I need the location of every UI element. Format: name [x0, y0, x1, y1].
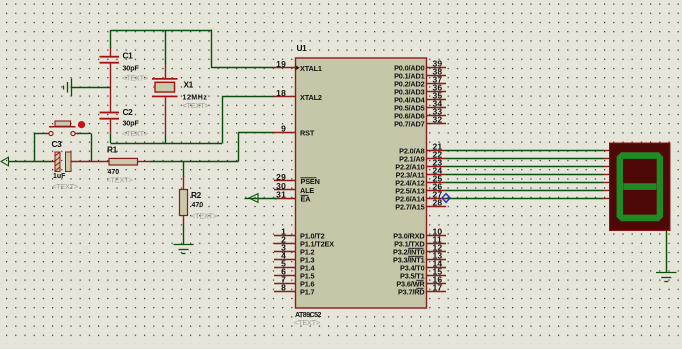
svg-text:32: 32 — [433, 115, 443, 125]
svg-text:P2.7/A15: P2.7/A15 — [395, 202, 424, 211]
U1 pin 1 P1.0/T2 stub — [274, 235, 296, 237]
wire XTAL1 net top — [111, 30, 275, 68]
U1 pin 11 P3.1/TXD stub — [426, 243, 446, 245]
wire P2.1/A9 to display — [446, 158, 610, 160]
wire P2.4/A12 to display — [446, 182, 610, 184]
svg-text:19: 19 — [276, 59, 286, 69]
svg-text:1uF: 1uF — [53, 173, 66, 180]
capacitor C3 (electrolytic) — [55, 152, 109, 172]
capacitor C2 — [100, 112, 120, 143]
U1 pin 2 P1.1/T2EX stub — [274, 243, 296, 245]
svg-text:C2: C2 — [123, 107, 134, 117]
wire input to C3 — [9, 161, 56, 163]
U1 pin 8 P1.7 stub — [274, 291, 296, 293]
svg-text:P0.7/AD7: P0.7/AD7 — [394, 119, 425, 128]
U1 pin label P3.6/WR — [396, 279, 425, 288]
resistor R2 — [180, 162, 188, 245]
svg-text:R1: R1 — [107, 144, 118, 154]
wire P2.5/A13 to display — [446, 190, 610, 192]
svg-text:470: 470 — [192, 202, 204, 209]
U1 pin 35 P0.4/AD4 stub — [426, 99, 446, 101]
U1 pin 39 P0.0/AD0 stub — [426, 67, 446, 69]
U1 pin 23 P2.2/A10 stub — [426, 166, 446, 168]
U1 pin 18 XTAL2 stub — [274, 96, 296, 98]
svg-text:8: 8 — [281, 283, 286, 293]
U1 pin 36 P0.3/AD3 stub — [426, 91, 446, 93]
U1 pin 27 P2.6/A14 stub — [426, 198, 446, 200]
wire display to ground — [666, 231, 668, 273]
U1 pin 24 P2.3/A11 stub — [426, 174, 446, 176]
U1 pin 30 ALE stub — [274, 189, 296, 191]
U1 pin 19 XTAL1 stub — [274, 67, 296, 69]
wire P2.6/A14 to display — [446, 198, 610, 200]
U1 pin 14 P3.4/T0 stub — [426, 267, 446, 269]
capacitor C1 labels — [122, 51, 148, 83]
U1 pin label P3.7/RD — [398, 287, 425, 296]
resistor R2 labels — [191, 190, 217, 221]
U1 pin 32 P0.7/AD7 stub — [426, 123, 446, 125]
U1 XTAL1 pin entry arrow — [296, 65, 300, 70]
wire R1 to RST — [149, 132, 274, 162]
EA terminal arrow — [245, 194, 278, 203]
svg-text:R2: R2 — [191, 190, 202, 200]
U1 pin 6 P1.5 stub — [274, 275, 296, 277]
resistor R1 — [109, 158, 149, 165]
U1 pin 29 PSEN stub — [274, 180, 296, 182]
svg-text:<TEXT>: <TEXT> — [107, 175, 133, 184]
U1 pin 12 P3.2/INT0 stub — [426, 251, 446, 253]
ground (below R2) — [174, 245, 194, 254]
resistor R1 labels — [107, 144, 133, 184]
U1 pin label EA — [301, 194, 312, 203]
U1 pin 17 P3.7/RD stub — [426, 291, 446, 293]
svg-text:9: 9 — [281, 124, 286, 134]
svg-text:<TEXT>: <TEXT> — [294, 318, 320, 327]
node: blue probe marker on P2.6 wire — [442, 194, 450, 203]
U1 pin label P3.2/INT0 — [393, 247, 425, 256]
U1 pin 22 P2.1/A9 stub — [426, 158, 446, 160]
U1 pin 15 P3.5/T1 stub — [426, 275, 446, 277]
svg-text:30pF: 30pF — [123, 65, 140, 72]
U1 part label AT89C52 — [294, 312, 322, 327]
U1 pin 28 P2.7/A15 stub — [426, 206, 446, 208]
ground (below display) — [656, 273, 677, 282]
U1 pin 10 P3.0/RXD stub — [426, 235, 446, 237]
U1 pin 13 P3.3/INT1 stub — [426, 259, 446, 261]
U1 pin 21 P2.0/A8 stub — [426, 150, 446, 152]
U1 pin 3 P1.2 stub — [274, 251, 296, 253]
svg-text:31: 31 — [276, 190, 286, 200]
svg-text:<TEXT>: <TEXT> — [122, 74, 148, 83]
svg-text:17: 17 — [433, 283, 443, 293]
svg-text:28: 28 — [433, 198, 443, 208]
U1 pin 4 P1.3 stub — [274, 259, 296, 261]
U1 pin 25 P2.4/A12 stub — [426, 182, 446, 184]
U1 pin 7 P1.6 stub — [274, 283, 296, 285]
U1 pin 31 EA stub — [274, 198, 296, 200]
op-amp U1 AT89C52 body — [296, 58, 427, 308]
U1 pin label P3.3/INT1 — [393, 255, 425, 264]
U1 pin 5 P1.4 stub — [274, 267, 296, 269]
crystal X1 labels — [183, 80, 209, 110]
svg-text:18: 18 — [276, 88, 286, 98]
svg-text:<TEXT>: <TEXT> — [191, 212, 217, 221]
U1 pin 16 P3.6/WR stub — [426, 283, 446, 285]
svg-text:XTAL1: XTAL1 — [300, 64, 322, 73]
U1 pin 26 P2.5/A13 stub — [426, 190, 446, 192]
svg-text:30pF: 30pF — [123, 121, 140, 128]
svg-text:XTAL2: XTAL2 — [300, 93, 322, 102]
capacitor C2 labels — [122, 107, 148, 138]
svg-text:P1.7: P1.7 — [300, 287, 315, 296]
svg-text:RST: RST — [300, 128, 315, 137]
wire P2.2/A10 to display — [446, 166, 610, 168]
svg-text:<TEXT>: <TEXT> — [183, 101, 209, 110]
U1 pin 38 P0.1/AD1 stub — [426, 75, 446, 77]
capacitor C1 — [100, 30, 120, 113]
ground (C1/C2 junction) — [64, 79, 111, 97]
7-segment display body — [610, 143, 671, 231]
display segment G (middle) — [623, 183, 656, 190]
wire P2.3/A11 to display — [446, 174, 610, 176]
crystal X1 — [152, 30, 178, 143]
display segments A,B,C,D,E,F (outer ring of digit 8) — [617, 152, 664, 221]
svg-text:U1: U1 — [297, 43, 308, 53]
wire XTAL2 net bottom — [111, 97, 275, 144]
svg-text:<TEXT>: <TEXT> — [122, 129, 148, 138]
input terminal arrow — [1, 157, 9, 166]
U1 pin label PSEN — [301, 177, 320, 186]
U1 pin 33 P0.6/AD6 stub — [426, 115, 446, 117]
U1 pin 37 P0.2/AD2 stub — [426, 83, 446, 85]
svg-text:X1: X1 — [184, 80, 194, 90]
push button — [35, 121, 92, 162]
wire P2.0/A8 to display — [446, 150, 610, 152]
svg-text:C3: C3 — [52, 139, 63, 149]
U1 pin 34 P0.5/AD5 stub — [426, 107, 446, 109]
U1 pin 9 RST stub — [274, 132, 296, 134]
svg-text:<TEXT>: <TEXT> — [52, 182, 78, 191]
capacitor C3 labels — [52, 139, 78, 191]
svg-text:C1: C1 — [123, 51, 134, 61]
